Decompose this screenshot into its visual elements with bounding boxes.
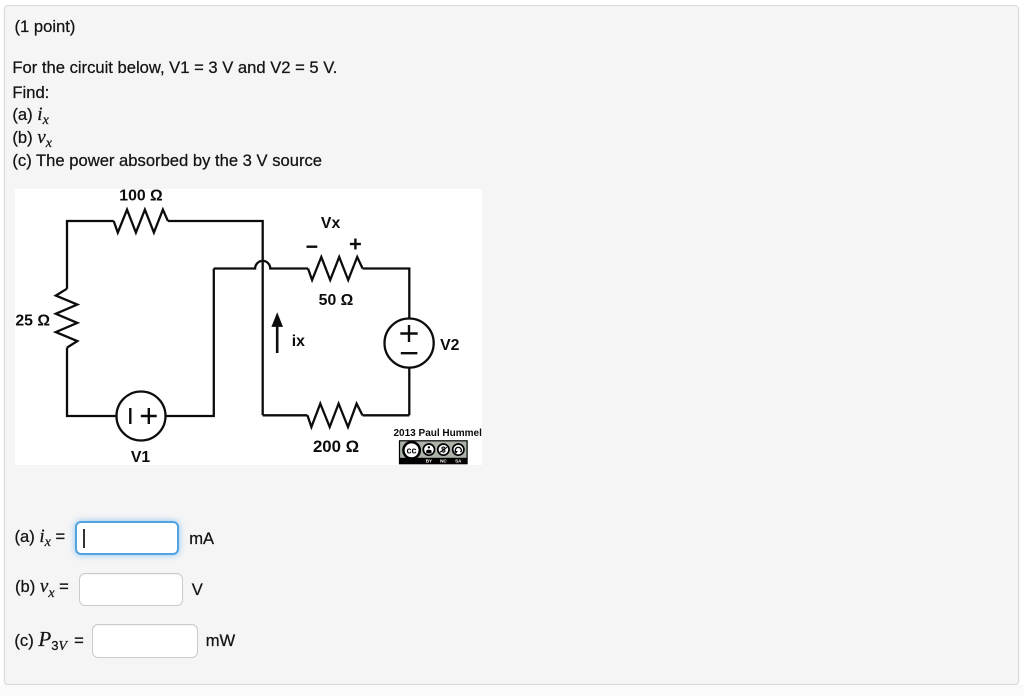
answer row c: [14, 631, 83, 652]
Vx minus sign: [307, 245, 318, 247]
wire V1 right to middle riser: [165, 269, 213, 417]
V1 internal plus: [141, 415, 157, 417]
svg-text:cc: cc: [406, 445, 416, 455]
resistor R 50ohm zigzag: [308, 257, 363, 280]
resistor R 100ohm zigzag: [114, 210, 168, 233]
wire bottom-right corner: [363, 414, 410, 416]
answer row b: [15, 579, 69, 598]
BY person circle: [423, 444, 434, 455]
resistor R 25ohm zigzag: [56, 289, 78, 348]
wire left-bottom corner to V1: [67, 348, 117, 416]
V2 internal plus: [400, 332, 417, 334]
NC dollar circle: [438, 444, 449, 455]
SA arrow circle: [453, 444, 464, 455]
wire V2 bottom: [408, 368, 410, 416]
circuit figure: [15, 189, 482, 465]
svg-text:50 Ω: 50 Ω: [319, 292, 354, 309]
wire top-left corner: [67, 221, 114, 289]
V1 internal bar: [129, 408, 131, 424]
Vx plus sign: [350, 243, 361, 245]
svg-text:V1: V1: [131, 449, 151, 465]
wire top-right and middle vertical drop: [168, 221, 263, 415]
svg-text:SA: SA: [455, 459, 462, 464]
source V1 circle: [117, 392, 166, 441]
svg-text:ix: ix: [292, 333, 305, 350]
answer row a: [15, 529, 66, 548]
wire middle with hop over vertical: [214, 261, 308, 269]
current arrow ix: [276, 325, 279, 353]
cc logo circle: [403, 442, 419, 458]
wire 200ohm to left corner: [263, 414, 308, 416]
svg-text:25 Ω: 25 Ω: [15, 313, 50, 330]
V2 internal minus: [401, 352, 418, 354]
svg-text:BY: BY: [426, 459, 432, 464]
svg-text:NC: NC: [440, 459, 447, 464]
svg-text:Vx: Vx: [321, 215, 341, 232]
problem text: [15, 19, 76, 36]
svg-text:100 Ω: 100 Ω: [119, 189, 163, 205]
svg-text:2013 Paul Hummel: 2013 Paul Hummel: [394, 428, 482, 439]
resistor R 200ohm zigzag: [307, 404, 362, 427]
svg-text:200 Ω: 200 Ω: [313, 437, 359, 456]
source V2 circle: [385, 319, 434, 368]
svg-text:V2: V2: [440, 337, 460, 354]
CC license badge: [400, 441, 468, 464]
wire 50ohm to V2 top: [363, 269, 410, 319]
